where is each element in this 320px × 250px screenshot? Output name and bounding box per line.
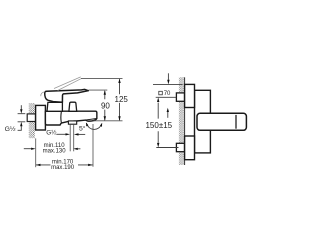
svg-text:150±15: 150±15 (145, 121, 172, 130)
svg-text:70: 70 (164, 91, 171, 97)
svg-text:max.130: max.130 (43, 149, 67, 155)
svg-text:90: 90 (101, 101, 110, 110)
svg-text:125: 125 (115, 95, 129, 104)
svg-text:G½: G½ (46, 128, 57, 136)
svg-text:5°: 5° (79, 124, 86, 132)
svg-text:max.190: max.190 (51, 165, 75, 171)
svg-text:G½: G½ (5, 125, 16, 133)
